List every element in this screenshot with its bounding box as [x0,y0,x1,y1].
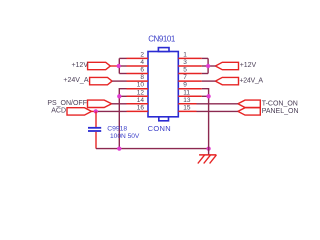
svg-text:6: 6 [140,67,144,74]
ground symbol bar [199,154,216,156]
junction +12V right [206,64,210,68]
svg-text:4: 4 [140,59,144,66]
svg-text:T-CON_ON: T-CON_ON [262,100,298,107]
pin 12 stub [127,95,149,97]
ground rail wire [96,148,209,150]
pin 6 stub [127,73,149,75]
pin 4 stub [127,65,149,67]
svg-text:PS_ON/OFF: PS_ON/OFF [47,100,87,107]
capacitor C9918 plates [88,127,101,129]
wire pin 1 to bus [202,57,208,59]
wire stub to pin 6 [119,73,126,75]
junction ground rail right [206,146,210,150]
junction +12V left [117,64,121,68]
wire stub to pin 12 [119,95,126,97]
svg-text:+12V: +12V [240,62,257,69]
port PANEL arrow [238,108,260,115]
svg-text:100N 50V: 100N 50V [110,133,140,140]
svg-text:PANEL_ON: PANEL_ON [262,108,299,115]
wire pin 10 to ground drop corner [119,89,126,97]
pin 13 stub [178,103,196,105]
svg-text:+12V: +12V [71,62,88,69]
port +12V left arrow [88,62,111,69]
svg-text:10: 10 [137,82,145,89]
wire ground drop right vertical [208,96,210,148]
svg-text:15: 15 [183,104,191,111]
pin 3 stub [178,65,202,67]
capacitor C9918 bottom lead [95,132,97,149]
svg-text:14: 14 [137,97,145,104]
capacitor C9918 top lead [95,111,97,127]
connector CN9101 body [148,48,178,121]
svg-text:9: 9 [183,82,187,89]
svg-text:12: 12 [137,89,145,96]
wire junction to pin 16 [96,110,127,112]
svg-text:ACD: ACD [51,108,66,115]
wire stub to pin 4 [119,65,126,67]
pin 1 stub [178,57,202,59]
svg-text:CONN: CONN [148,124,171,133]
wire pin 5 to bus [202,73,208,75]
pin 10 stub [127,88,149,90]
junction pin 12 row [117,94,121,98]
pin 16 stub [127,110,149,112]
wire stub pin 11 [202,95,209,97]
pin numbers right [183,51,191,111]
svg-text:CN9101: CN9101 [148,34,176,43]
wire right +12V vertical bus pins 1-5 [207,58,209,73]
wire stub to pin 2 [119,57,126,59]
pin 2 stub [127,57,149,59]
svg-text:8: 8 [140,74,144,81]
junction ACD capacitor tap [94,109,98,113]
port ACD arrow [67,108,92,115]
port +24V_A left arrow [90,77,113,84]
pin 9 stub [178,88,202,90]
wire +12V left to junction [110,65,119,67]
wire pin 9 to ground drop corner [202,89,209,97]
wire +12V left vertical bus pins 2-6 [118,58,120,73]
port +24V_A right arrow [215,77,238,84]
ground symbol hatch 2 [204,155,211,164]
svg-text:2: 2 [140,51,144,58]
svg-text:5: 5 [183,67,187,74]
pin 14 stub [127,103,149,105]
svg-text:13: 13 [183,97,191,104]
svg-text:3: 3 [183,59,187,66]
wire +24V_A left to pin 8 [112,80,126,82]
svg-text:16: 16 [137,104,145,111]
pin 11 stub [178,95,202,97]
wire pin 3 junction to arrow [202,65,216,67]
junction ground rail left [117,146,121,150]
wire pin 15 to PANEL arrow [197,110,238,112]
svg-text:11: 11 [183,89,190,96]
svg-text:1: 1 [183,51,187,58]
svg-text:C9918: C9918 [107,126,127,133]
port +12V right arrow [215,62,238,69]
pin 8 stub [127,80,149,82]
pin 15 stub [178,110,196,112]
ground symbol stem [208,149,210,155]
pin 5 stub [178,73,202,75]
wire pin 7 to arrow [202,80,216,82]
wire ground drop left vertical [118,96,120,148]
junction pin 11 row [206,94,210,98]
port T-CON arrow [238,100,260,107]
pin 7 stub [178,80,202,82]
pin numbers left [137,51,145,111]
port PS_ON/OFF arrow [88,100,112,107]
ground symbol hatch 1 [198,155,205,164]
ground symbol hatch 3 [210,155,217,164]
svg-text:7: 7 [183,74,187,81]
svg-text:+24V_A: +24V_A [240,77,264,84]
svg-text:+24V_A: +24V_A [63,77,88,84]
wire pin 13 to T-CON arrow [197,103,238,105]
wire ACD to junction [92,110,96,112]
wire PS_ON/OFF to pin 14 [112,103,127,105]
